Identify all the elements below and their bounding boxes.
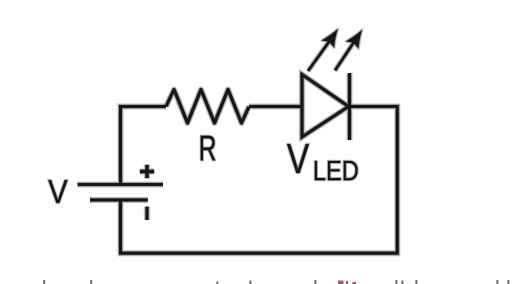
wire: resistor to LED anode: [249, 105, 301, 108]
resistor R zigzag body: [166, 90, 249, 124]
main dark strokes: [78, 73, 398, 253]
LED emission arrow 2 (upper-right): [335, 26, 368, 70]
battery V: negative (short) plate: [90, 198, 148, 201]
label LED subscript of V_LED: [315, 161, 358, 180]
LED triangle (anode): [302, 75, 349, 138]
label V (battery voltage): [48, 180, 67, 203]
battery plus sign: [140, 165, 154, 178]
label R (resistor): [201, 136, 216, 161]
label V of V_LED: [287, 144, 309, 173]
battery V: positive (long) plate: [78, 183, 164, 186]
halo understrokes for soft blurred look: [48, 25, 397, 253]
clipped body-text line fragments at bottom edge: [43, 280, 509, 284]
LED emission arrow 1 (lower-left): [308, 25, 344, 71]
battery minus mark (vertical tick): [145, 207, 148, 221]
LED cathode bar: [348, 73, 351, 140]
clipped red link-text fragments at bottom edge: [338, 281, 356, 284]
wire: LED cathode to right corner, right side, bottom, up to battery: [121, 107, 398, 254]
wire: left side upper segment with top-left corner into top wire: [121, 107, 167, 185]
